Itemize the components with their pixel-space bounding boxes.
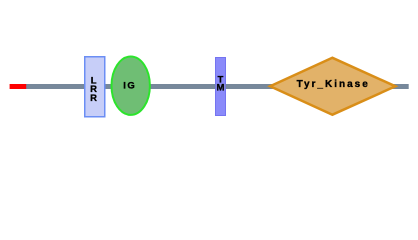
svg-text:M: M — [216, 83, 224, 94]
domain LRR box — [85, 57, 105, 117]
svg-text:Tyr_Kinase: Tyr_Kinase — [297, 79, 370, 90]
svg-text:R: R — [90, 93, 97, 104]
svg-text:IG: IG — [123, 81, 136, 92]
backbone wire — [26, 84, 409, 89]
domain TM box — [215, 58, 226, 116]
domain IG ellipse — [112, 56, 150, 114]
domain Tyr_Kinase diamond — [270, 58, 395, 115]
N-terminal red segment — [10, 84, 27, 89]
